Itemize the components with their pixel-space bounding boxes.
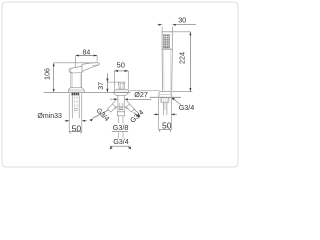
nozzle grid	[163, 34, 169, 48]
svg-text:G3/4: G3/4	[179, 103, 195, 112]
svg-text:84: 84	[83, 49, 91, 56]
svg-text:G3/4: G3/4	[113, 137, 129, 146]
dimension 84	[76, 49, 98, 67]
diverter escutcheon flange	[114, 89, 129, 92]
svg-text:106: 106	[42, 68, 51, 80]
page background	[0, 0, 240, 169]
dimension 50 under faucet	[65, 94, 87, 134]
label G3/4 underlined with arrows	[110, 137, 132, 150]
holder nut below deck	[161, 98, 169, 103]
right diagonal arm with nut	[124, 101, 138, 117]
dimension 224	[171, 32, 192, 92]
svg-text:224: 224	[177, 52, 186, 64]
left diagonal arm with nut	[93, 101, 118, 119]
pipe below block	[119, 116, 123, 138]
svg-text:Ømin33: Ømin33	[37, 113, 62, 120]
svg-text:50: 50	[116, 61, 124, 70]
faucet threaded studs below deck	[72, 93, 80, 119]
right arm arrow G3/4	[136, 114, 140, 118]
dimension 37	[98, 73, 119, 92]
escutcheon cylinder sides	[115, 71, 129, 89]
faucet body	[71, 72, 82, 87]
faucet lever handle	[69, 63, 99, 73]
deck line right	[150, 96, 181, 98]
holder flange	[159, 91, 171, 97]
label G3/8 underlined	[112, 123, 129, 132]
svg-text:G3/8: G3/8	[113, 123, 129, 132]
reference line to lever tip	[54, 62, 98, 64]
svg-text:50: 50	[162, 121, 172, 131]
frame border	[2, 2, 238, 167]
shank diameter arrows	[110, 98, 151, 100]
left arm arrow G3/4	[89, 119, 93, 122]
faucet base	[68, 88, 84, 93]
dimension 30	[157, 16, 196, 32]
label Ø27 with shelf	[130, 90, 160, 99]
shower head	[162, 32, 172, 49]
center block	[117, 112, 124, 116]
dimension 50 (shower holder)	[153, 98, 177, 132]
svg-text:50: 50	[72, 124, 82, 134]
diverter shank below deck	[118, 95, 124, 112]
svg-text:Ø27: Ø27	[134, 90, 148, 99]
below-deck trapezoid collar	[113, 93, 129, 96]
dimension 50 (diverter escutcheon)	[114, 61, 128, 72]
svg-text:37: 37	[98, 82, 105, 90]
deck line left (under faucet and diverter)	[44, 91, 131, 93]
diverter knob	[118, 82, 125, 89]
G3/4 leader (shower)	[172, 98, 195, 112]
holder shank	[163, 102, 167, 115]
svg-text:30: 30	[178, 16, 186, 25]
dimension 106	[42, 63, 97, 93]
shower handle	[162, 49, 172, 91]
